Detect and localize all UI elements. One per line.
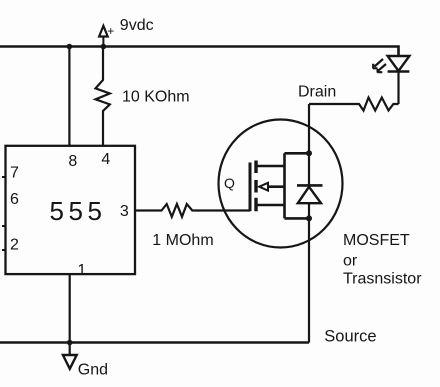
svg-text:8: 8	[68, 153, 77, 170]
svg-text:+: +	[107, 24, 114, 38]
svg-text:9vdc: 9vdc	[120, 17, 154, 34]
svg-text:Drain: Drain	[298, 84, 336, 101]
svg-text:or: or	[343, 253, 358, 270]
svg-text:7: 7	[10, 164, 19, 181]
svg-text:Source: Source	[324, 327, 376, 345]
svg-text:4: 4	[101, 151, 110, 168]
svg-text:Trasnsistor: Trasnsistor	[343, 270, 422, 287]
svg-text:Gnd: Gnd	[78, 361, 108, 378]
svg-text:Q: Q	[224, 175, 235, 191]
svg-text:1 MOhm: 1 MOhm	[152, 232, 213, 249]
svg-text:6: 6	[10, 191, 19, 208]
svg-text:10 KOhm: 10 KOhm	[122, 89, 190, 106]
svg-text:3: 3	[120, 203, 129, 220]
svg-text:MOSFET: MOSFET	[343, 232, 410, 249]
svg-text:2: 2	[10, 237, 19, 254]
svg-text:1: 1	[77, 262, 86, 279]
svg-text:555: 555	[50, 196, 107, 226]
